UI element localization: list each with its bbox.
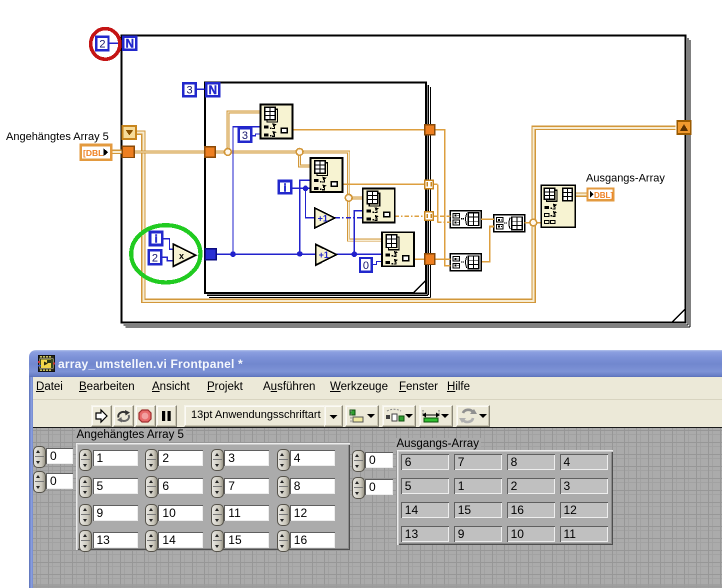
wire: 2D array bottom route (from left tunnel, around bottom, up to reshape, to top-right tunnel)	[136, 128, 676, 301]
numeric indicator element 11	[560, 526, 608, 542]
label Angehaengtes Array 5	[75, 429, 186, 442]
svg-text:3: 3	[186, 85, 192, 97]
numeric indicator element 8	[507, 454, 555, 470]
numeric indicator element 10	[507, 526, 555, 542]
open junction circle 4 at reshape input	[530, 219, 537, 226]
outer loop count terminal N	[123, 37, 136, 51]
numeric control element 1	[79, 449, 92, 471]
wire: U1 output to tunnel	[293, 129, 426, 131]
wire: branch up to U3 second input	[354, 211, 363, 255]
wire: i to multiply	[163, 239, 174, 250]
green annotation circle	[131, 225, 200, 282]
numeric indicator element 2	[507, 478, 555, 494]
inner loop iteration terminal i	[279, 181, 292, 194]
svg-text:i: i	[155, 234, 158, 246]
tunnel: inner-loop left solid orange	[205, 147, 216, 158]
build-array node U5	[450, 211, 481, 228]
wire: 3-const to U1 index input	[251, 134, 261, 136]
numeric control element 14	[145, 530, 158, 552]
outer for-loop frame	[122, 36, 691, 328]
wire: constant 2 to N	[109, 42, 122, 44]
numeric control element 10	[145, 504, 158, 526]
LabVIEW block diagram	[0, 0, 722, 350]
wire: junction into reshape node D	[533, 222, 541, 224]
left array index control 1	[33, 446, 46, 468]
constant 3 (index for U1)	[239, 128, 251, 142]
array indicator Ausgangs-Array	[397, 450, 613, 545]
svg-text:0: 0	[363, 260, 369, 272]
svg-text:[DBL: [DBL	[83, 148, 103, 158]
wire: node A output to node C	[481, 218, 494, 220]
tunnel: outer-loop right auto-index (up triangle)	[677, 121, 691, 134]
front panel window	[29, 350, 722, 588]
wire: branch down into U2 array input	[300, 152, 311, 166]
wire: U2 output to bracket tunnel	[342, 183, 426, 185]
open junction circle 3 at U3 branch	[345, 194, 352, 201]
wire: constant 3 to inner N	[196, 88, 205, 90]
numeric indicator element 12	[560, 502, 608, 518]
wire: 0-const to U4	[372, 262, 382, 265]
constant 0	[360, 258, 372, 272]
title bar	[29, 350, 722, 377]
wire: top tunnel long drop to build node B pin2	[435, 130, 451, 266]
svg-text:i: i	[283, 182, 286, 194]
wire: 2D array from control to tunnel	[110, 150, 123, 155]
left array index control 2	[33, 471, 46, 493]
label Ausgangs-Array	[395, 438, 481, 451]
svg-text:N: N	[126, 39, 134, 51]
open junction circle 1 on main array wire	[224, 149, 231, 156]
wire: branch into U3 array input	[349, 196, 364, 199]
tunnel: inner-loop right bracket 1	[425, 180, 434, 188]
constant 2	[96, 37, 108, 51]
tunnel: inner-loop right solid top	[425, 125, 435, 135]
numeric control element 4	[277, 449, 290, 471]
tunnel: outer-loop left auto-index (triangle)	[123, 126, 137, 139]
junction dot on blue line at U3 riser	[352, 251, 358, 257]
red annotation circle	[91, 29, 120, 60]
numeric indicator element 14	[401, 502, 449, 518]
wire: node C output to junction	[524, 222, 533, 224]
numeric control element 11	[211, 504, 224, 526]
wire: branch up to index-array U1	[228, 112, 261, 152]
tunnel: outer-loop left plain (solid)	[122, 146, 134, 157]
toolbar	[33, 400, 722, 427]
numeric control element 9	[79, 504, 92, 526]
junction dot on main blue line at riser 1	[230, 251, 236, 257]
DBL array indicator terminal	[588, 188, 614, 200]
menu bar	[33, 377, 722, 400]
svg-text:+1: +1	[318, 214, 328, 224]
wire: main blue line multiply to +1b and U4	[216, 253, 382, 255]
numeric control element 3	[211, 449, 224, 471]
increment node +1 upper	[315, 208, 335, 228]
numeric indicator element 1	[454, 478, 502, 494]
tunnel: inner-loop left blue (multiply result)	[205, 249, 216, 260]
svg-text:Angehängtes Array 5: Angehängtes Array 5	[6, 131, 109, 143]
numeric control element 16	[277, 530, 290, 552]
right array index control 1	[352, 450, 365, 472]
outer loop resize corner	[673, 310, 685, 322]
wire: i junction down to +1	[306, 188, 315, 218]
wire: 1D array main horizontal inside loops	[134, 152, 383, 240]
svg-text:2: 2	[152, 252, 158, 264]
wire: +1 output to U3 (dashed)	[335, 217, 363, 219]
index-array node U3	[363, 189, 395, 223]
svg-text:+1: +1	[319, 250, 329, 260]
numeric control element 12	[277, 504, 290, 526]
index-array node U1	[261, 105, 293, 139]
front panel grid area	[33, 428, 722, 588]
build-array node U7	[494, 215, 525, 232]
numeric control element 6	[145, 476, 158, 498]
index-array node U4	[382, 232, 414, 266]
numeric control element 2	[145, 449, 158, 471]
wire: U4 output to tunnel	[414, 258, 425, 260]
wire: reshape output to DBL indicator	[575, 192, 587, 197]
outer loop iteration terminal i	[150, 232, 162, 246]
numeric indicator element 5	[401, 478, 449, 494]
DBL array control terminal	[81, 145, 111, 160]
svg-text:Ausgangs-Array: Ausgangs-Array	[586, 173, 665, 185]
constant 2 (multiplier)	[149, 250, 161, 264]
svg-text:2: 2	[99, 38, 105, 50]
numeric indicator element 4	[560, 454, 608, 470]
open junction circle 2 on main array wire	[296, 149, 303, 156]
window bottom edge	[33, 584, 722, 588]
window left border	[29, 377, 33, 588]
array control Angehaengtes Array 5	[76, 443, 350, 550]
numeric indicator element 6	[401, 454, 449, 470]
inner loop count terminal N	[206, 83, 219, 97]
svg-text:3: 3	[242, 130, 248, 142]
wire: blue riser from main line to U1 second input	[233, 127, 261, 255]
numeric indicator element 7	[454, 454, 502, 470]
junction dot at i-wire branch	[303, 186, 309, 192]
wire: bottom tunnel to build node B pin1	[435, 258, 451, 260]
tunnel: inner-loop right solid bottom	[425, 254, 435, 265]
increment node +1 lower	[316, 244, 337, 265]
wire: inner i terminal to U2	[292, 187, 311, 189]
wire: U3 output to bracket tunnel (dashed)	[395, 215, 426, 217]
index-array node U2	[311, 158, 343, 192]
numeric indicator element 15	[454, 502, 502, 518]
multiply node	[173, 244, 195, 266]
right array index control 2	[352, 477, 365, 499]
numeric control element 8	[277, 476, 290, 498]
numeric control element 5	[79, 476, 92, 498]
wire: riser branch to U2 pin	[300, 180, 311, 254]
inner for-loop frame	[205, 83, 430, 298]
numeric control element 13	[79, 530, 92, 552]
numeric indicator element 9	[454, 526, 502, 542]
separator line under toolbar	[33, 427, 722, 428]
numeric control element 7	[211, 476, 224, 498]
svg-text:x: x	[179, 251, 184, 261]
numeric indicator element 3	[560, 478, 608, 494]
svg-text:DBL]: DBL]	[594, 191, 613, 200]
wire: bracket tunnel 2 to build node A pin1	[434, 215, 451, 217]
build-array node U6	[450, 254, 481, 271]
wires outside inner loop: bracket tunnel 1 to build node A pin2	[434, 183, 438, 185]
tunnel: inner-loop right bracket 2	[425, 212, 434, 220]
inner loop resize corner	[414, 281, 426, 293]
constant 3 (loop count)	[183, 83, 195, 96]
numeric indicator element 13	[401, 526, 449, 542]
wire: 2 to multiply	[161, 257, 173, 261]
numeric indicator element 16	[507, 502, 555, 518]
numeric control element 15	[211, 530, 224, 552]
svg-text:N: N	[209, 85, 217, 97]
reshape-array node U8	[541, 185, 575, 227]
junction dot on main blue line at riser 2	[297, 251, 303, 257]
wire: node B output up to node C pin2	[482, 227, 494, 262]
